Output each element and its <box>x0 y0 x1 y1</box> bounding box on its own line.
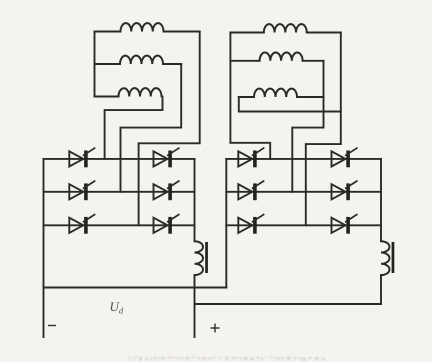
inductor winding L2c (right unit) <box>254 89 297 97</box>
wire L2c left lead <box>239 96 254 98</box>
thyristor VT10 (bridge2 row1 right) <box>332 148 358 168</box>
wire: phase b to bridge1 row2 midpoint <box>121 64 182 192</box>
inductor winding L2b (right unit) <box>260 52 303 60</box>
wire: bridge2 row3 line <box>226 224 381 226</box>
thyristor VT8 (bridge2 row3 right) <box>332 214 358 234</box>
wire: bridge1 row3 line <box>44 224 195 226</box>
wire: bridge1 row2 line <box>44 191 195 193</box>
wire L2a right lead <box>307 32 341 34</box>
wire: delta node C branch to L2c left lead <box>239 97 341 112</box>
reactor Lp2 core bar <box>392 242 395 273</box>
wire L1b left lead to star bus <box>95 63 121 65</box>
wire: bridge2 row1 line <box>226 158 381 160</box>
wire: bridge2 right rail (positive) down to reactor <box>380 159 382 241</box>
faint cropped caption at bottom edge <box>128 356 325 361</box>
wire L2c right lead joins node B <box>297 96 324 98</box>
inductor winding L1c (left unit, phase c) <box>119 88 162 96</box>
thyristor VT9 (bridge2 row2 left) <box>238 181 264 201</box>
wire: bridge1 left rail (negative) down to - terminal <box>43 159 45 337</box>
wire: delta node C (L2a.r) to bridge2 row3 midpoint <box>306 33 341 226</box>
thyristor VT7 (bridge2 row1 left) <box>238 148 264 168</box>
wire L1b right lead <box>163 63 181 65</box>
wire L2b left lead <box>230 60 259 62</box>
thyristor VT1 (bridge1 row1 left) <box>69 148 95 168</box>
wire: phase a to bridge1 row3 midpoint <box>139 32 200 226</box>
wire: bridge2 row2 line <box>226 191 381 193</box>
interphase reactor half Lp2 (right) <box>381 241 389 275</box>
wire: Lp2 bottom lead <box>380 275 382 304</box>
reactor Lp1 core bar <box>205 242 208 273</box>
wire: bridge1 right rail (positive) down to reactor <box>194 159 196 241</box>
wire: common negative bus between bridges <box>44 287 227 289</box>
thyristor VT3 (bridge1 row2 left) <box>69 181 95 201</box>
wire: bridge1 row1 line <box>44 158 195 160</box>
wire L1a left lead to star bus <box>95 31 121 33</box>
interphase reactor half Lp1 (left) <box>195 241 203 275</box>
wire L1c left lead to star bus <box>95 96 119 98</box>
thyristor VT2 (bridge1 row3 right) <box>154 214 180 234</box>
wire: reactor bottoms junction bus <box>195 303 382 305</box>
thyristor VT4 (bridge1 row1 right) <box>154 148 180 168</box>
wire: phase c to bridge1 row1 midpoint <box>105 97 163 159</box>
inductor winding L1a (left unit, phase a) <box>121 23 164 31</box>
wire: reactor centre tap down to + terminal <box>194 275 196 337</box>
thyristor VT5 (bridge1 row3 left) <box>69 214 95 234</box>
wire: delta node B (L2b.r+L2c.r) to bridge2 row2 midpoint <box>292 61 323 192</box>
wire L2b right lead <box>303 60 324 62</box>
thyristor VT11 (bridge2 row3 left) <box>238 214 264 234</box>
label plus terminal <box>211 324 220 333</box>
wire L2a left lead <box>230 32 263 34</box>
wire: delta node A (L2a.l+L2b.l) to bridge2 row1 midpoint <box>230 33 270 159</box>
wire: star neutral bus (left unit) <box>94 32 96 97</box>
inductor winding L2a (right unit) <box>264 24 307 32</box>
wire L1a right lead <box>164 31 200 33</box>
label minus terminal <box>48 325 56 327</box>
inductor winding L1b (left unit, phase b) <box>120 56 163 64</box>
thyristor VT12 (bridge2 row2 right) <box>332 181 358 201</box>
wire: bridge2 left rail (negative) down to common bus <box>225 159 227 288</box>
thyristor VT6 (bridge1 row2 right) <box>154 181 180 201</box>
